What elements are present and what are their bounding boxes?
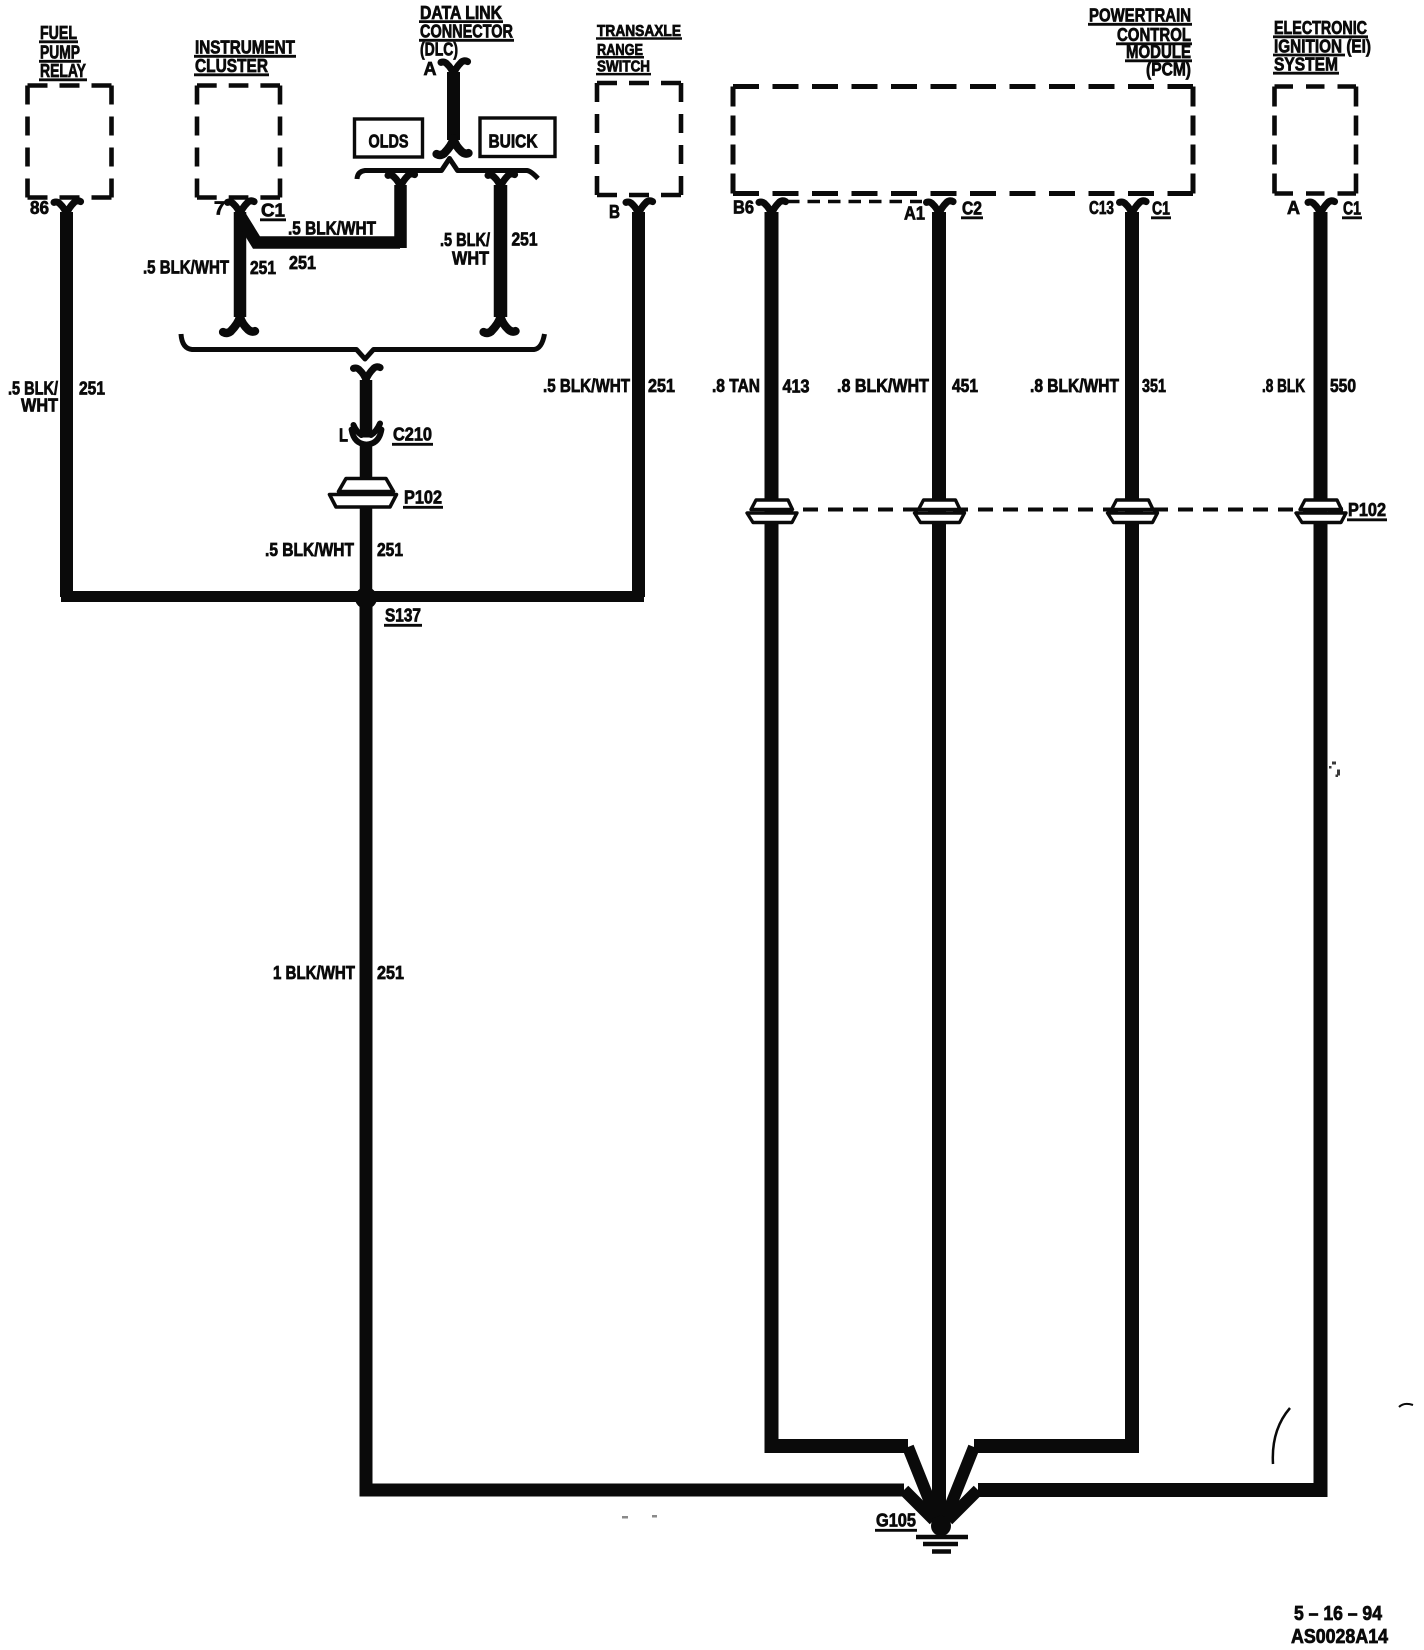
svg-text:.8 BLK: .8 BLK	[1262, 375, 1305, 396]
svg-text:CLUSTER: CLUSTER	[195, 55, 268, 76]
svg-text:L: L	[339, 425, 348, 446]
connector P102 (left grommet)	[330, 479, 397, 508]
svg-text:P102: P102	[404, 487, 442, 508]
svg-text:351: 351	[1142, 375, 1166, 396]
svg-text:413: 413	[783, 376, 810, 397]
powertrain control module label	[1088, 5, 1192, 80]
label S137	[384, 605, 422, 626]
connector C210	[352, 424, 382, 445]
svg-text:.5 BLK/WHT: .5 BLK/WHT	[543, 375, 631, 396]
OLDS box	[355, 119, 423, 157]
connector half (DLC wire end)	[437, 139, 469, 155]
svg-text:AS0028A14: AS0028A14	[1291, 1626, 1389, 1648]
ground funnel diagonals	[904, 1447, 978, 1520]
wire C210 to S137	[360, 444, 373, 600]
wire DLC down	[447, 72, 460, 140]
EI system box	[1275, 87, 1357, 194]
svg-text:251: 251	[648, 375, 675, 396]
label .8 TAN 413	[712, 375, 810, 397]
data link connector label	[419, 2, 514, 60]
svg-text:P102: P102	[1348, 499, 1386, 520]
scan artifact tick	[1399, 1404, 1413, 1407]
svg-text:RELAY: RELAY	[40, 60, 86, 81]
instrument cluster box	[197, 86, 280, 198]
scan artifact specks near EI wire	[1329, 762, 1340, 778]
label .8 BLK/WHT 351	[1030, 375, 1166, 396]
connector C1 (PCM)	[1151, 198, 1171, 219]
wire OLDS branch	[394, 185, 407, 248]
connector P102 on 451 wire	[915, 500, 965, 523]
connector below big brace	[354, 367, 381, 381]
label .8 BLK/WHT 451	[837, 375, 978, 396]
brace under OLDS/BUICK	[357, 159, 538, 180]
wire pin7 down	[234, 212, 247, 317]
PCM A1 pin connector	[927, 201, 954, 215]
electronic ignition label	[1273, 17, 1371, 75]
svg-text:G105: G105	[876, 1510, 916, 1531]
svg-text:550: 550	[1330, 375, 1356, 396]
connector C1 (instrument cluster)	[260, 200, 286, 221]
svg-text:451: 451	[952, 375, 978, 396]
svg-text:251: 251	[289, 252, 316, 273]
svg-text:.8 TAN: .8 TAN	[712, 375, 760, 396]
svg-text:251: 251	[377, 962, 404, 983]
connector half (wire end above brace, instrument cluster)	[223, 317, 255, 333]
PCM connector row dashed line	[787, 200, 922, 204]
svg-text:86: 86	[30, 197, 49, 218]
svg-text:C1: C1	[261, 200, 285, 221]
svg-text:C1: C1	[1343, 198, 1361, 219]
label .5 BLK/ WHT 251 (BUICK branch)	[440, 229, 538, 269]
wire transaxle to S137 bus	[632, 212, 645, 597]
wire A1 to ground	[932, 212, 946, 1518]
PCM B6 pin connector	[759, 201, 786, 215]
svg-text:POWERTRAIN: POWERTRAIN	[1089, 5, 1191, 26]
connector C1 (EI)	[1342, 198, 1362, 219]
label .5 BLK/WHT 251 (transaxle wire)	[543, 375, 675, 396]
label .5 BLK/WHT 251 (instrument cluster wire)	[143, 257, 276, 279]
instrument cluster pin connector	[228, 201, 255, 215]
wire big brace to C210	[360, 380, 373, 438]
transaxle pin connector	[626, 201, 653, 215]
big brace collecting branches	[181, 334, 545, 359]
svg-text:251: 251	[79, 378, 105, 399]
svg-text:SYSTEM: SYSTEM	[1274, 54, 1338, 75]
svg-text:BUICK: BUICK	[489, 131, 539, 152]
connector P102 on 351 wire	[1108, 500, 1158, 523]
BUICK box	[480, 118, 555, 157]
svg-text:FUEL: FUEL	[40, 22, 77, 43]
svg-text:A: A	[424, 58, 437, 79]
wire S137 down to ground bus	[366, 598, 904, 1490]
DLC pin connector	[441, 61, 468, 75]
P102 row dashed line	[778, 508, 1345, 512]
label L C210	[339, 424, 433, 446]
ground symbol	[916, 1537, 968, 1552]
svg-text:S137: S137	[385, 605, 421, 626]
wire C13 to ground funnel	[974, 212, 1132, 1446]
BUICK branch connector	[488, 174, 515, 188]
svg-text:A: A	[1287, 197, 1300, 218]
svg-text:.5 BLK/WHT: .5 BLK/WHT	[143, 257, 230, 278]
label P102 (left)	[403, 487, 443, 508]
transaxle range switch box	[597, 83, 681, 195]
ground G105 dot	[931, 1516, 951, 1536]
transaxle range switch label	[596, 23, 682, 76]
svg-text:251: 251	[250, 257, 276, 278]
svg-text:251: 251	[377, 539, 403, 560]
svg-text:5 – 16 – 94: 5 – 16 – 94	[1294, 1603, 1383, 1625]
PCM C13 pin connector	[1120, 201, 1147, 215]
svg-text:B: B	[609, 201, 620, 222]
svg-text:WHT: WHT	[452, 248, 490, 269]
svg-text:OLDS: OLDS	[369, 131, 409, 152]
svg-text:7: 7	[214, 198, 225, 219]
svg-text:C1: C1	[1152, 198, 1170, 219]
label .8 BLK 550	[1262, 375, 1356, 396]
svg-text:.8 BLK/WHT: .8 BLK/WHT	[1030, 375, 1120, 396]
EI pin connector	[1308, 201, 1335, 215]
scan artifact dots	[622, 1515, 657, 1519]
instrument cluster label	[194, 37, 296, 77]
svg-text:C2: C2	[962, 198, 982, 219]
svg-text:1 BLK/WHT: 1 BLK/WHT	[273, 962, 356, 983]
label .5 BLK/WHT 251 (fuel wire)	[8, 378, 105, 416]
svg-text:A1: A1	[904, 203, 925, 224]
svg-text:.5 BLK/WHT: .5 BLK/WHT	[288, 218, 377, 239]
OLDS branch connector	[388, 174, 415, 188]
label .5 BLK/WHT 251 (below P102)	[265, 539, 403, 560]
fuel pump relay box	[28, 86, 112, 198]
connector half (BUICK branch end)	[484, 317, 516, 333]
svg-text:251: 251	[512, 229, 538, 250]
svg-text:B6: B6	[733, 197, 754, 218]
wire fuel pump relay to S137 bus	[60, 212, 73, 597]
S137 bus wire	[61, 591, 644, 602]
connector C2 (PCM)	[961, 198, 983, 219]
svg-text:C13: C13	[1089, 197, 1114, 218]
fuel pump relay pin connector	[54, 201, 81, 215]
fuel pump relay label	[39, 22, 87, 81]
label G105	[875, 1510, 917, 1531]
wire EI to ground bus	[978, 212, 1321, 1490]
connector P102 on TAN wire	[747, 500, 797, 523]
scan artifact arc	[1273, 1408, 1290, 1464]
PCM box	[733, 87, 1193, 194]
svg-text:WHT: WHT	[21, 395, 59, 416]
connector P102 on EI wire	[1296, 500, 1346, 523]
svg-text:C210: C210	[393, 424, 432, 445]
splice S137 dot	[355, 587, 377, 609]
svg-text:.5 BLK/WHT: .5 BLK/WHT	[265, 539, 355, 560]
wire B6 to ground funnel	[772, 212, 909, 1446]
svg-text:.8 BLK/WHT: .8 BLK/WHT	[837, 375, 930, 396]
wire BUICK branch	[494, 185, 508, 317]
wire pin7 diagonal to OLDS branch	[240, 215, 401, 243]
label 1 BLK/WHT 251	[273, 962, 404, 983]
label P102 (right)	[1347, 499, 1387, 520]
